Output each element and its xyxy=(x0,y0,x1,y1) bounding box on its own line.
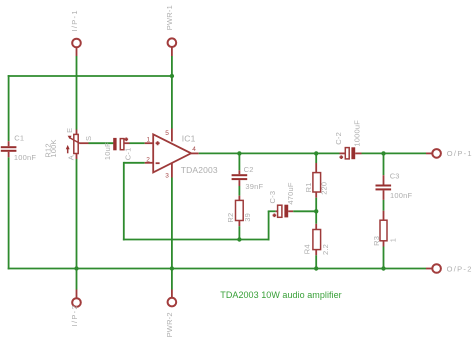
wire R2 to feedback xyxy=(238,226,240,239)
svg-text:220: 220 xyxy=(319,182,328,195)
pin PWR-1 xyxy=(165,5,176,56)
svg-text:IC1: IC1 xyxy=(182,134,196,144)
svg-text:PWR-2: PWR-2 xyxy=(165,312,174,337)
wire C-3 riser xyxy=(268,211,276,240)
wire pin3 / PWR-2 drop xyxy=(171,178,173,269)
svg-text:I/P-2: I/P-2 xyxy=(70,304,79,326)
node I/P-2 junction xyxy=(74,266,78,270)
wire R12 lower drop xyxy=(76,159,78,269)
node R2/feedback junction xyxy=(237,237,241,241)
svg-text:5: 5 xyxy=(165,130,169,137)
svg-text:1000uF: 1000uF xyxy=(353,120,362,147)
op-amp IC1 TDA2003 xyxy=(145,129,218,180)
svg-text:O/P-2: O/P-2 xyxy=(447,265,473,274)
svg-text:C-1: C-1 xyxy=(124,148,133,161)
svg-text:R3: R3 xyxy=(372,236,381,246)
pin I/P-2 xyxy=(70,269,81,327)
wire C2 to R2 xyxy=(238,186,240,196)
svg-text:3: 3 xyxy=(165,172,169,179)
node top rail / PWR-1 junction xyxy=(170,74,174,78)
pin PWR-2 xyxy=(165,269,176,338)
node C3 top junction xyxy=(381,151,385,155)
wire top rail xyxy=(8,75,172,77)
svg-text:A: A xyxy=(66,155,75,160)
wire pin2 to feedback xyxy=(124,162,145,164)
pin I/P-1 xyxy=(70,9,81,56)
capacitor C2 39nF xyxy=(232,153,264,190)
svg-text:C2: C2 xyxy=(244,165,254,174)
wire PWR-1 drop xyxy=(171,56,173,129)
node R1/R4/C-3 junction xyxy=(314,209,318,213)
resistor R4 2.2 xyxy=(303,211,331,268)
svg-text:10uF: 10uF xyxy=(103,142,112,160)
svg-text:I/P-1: I/P-1 xyxy=(70,9,79,31)
svg-text:100K: 100K xyxy=(49,139,58,157)
wire I/P-1 drop xyxy=(76,56,78,130)
svg-text:1: 1 xyxy=(389,238,398,242)
wire C-2 to O/P-1 xyxy=(362,152,427,154)
resistor R2 39 xyxy=(226,196,252,227)
capacitor C1 xyxy=(1,134,37,162)
svg-text:2: 2 xyxy=(146,156,150,163)
capacitor C-3 470uF xyxy=(268,182,295,217)
pin O/P-2 xyxy=(426,264,473,273)
wire C3 to R3 xyxy=(383,200,385,211)
svg-text:470uF: 470uF xyxy=(286,182,295,204)
capacitor C-1 10uF xyxy=(103,138,133,161)
resistor R3 1 xyxy=(372,211,398,247)
svg-text:R4: R4 xyxy=(303,244,312,254)
wire feedback bottom xyxy=(123,239,270,241)
svg-text:TDA2003: TDA2003 xyxy=(181,165,218,175)
wire C-3 to node xyxy=(293,210,316,212)
svg-text:39nF: 39nF xyxy=(245,182,263,191)
svg-text:100nF: 100nF xyxy=(14,153,36,162)
svg-text:PWR-1: PWR-1 xyxy=(165,5,174,30)
svg-text:TDA2003 10W audio amplifier: TDA2003 10W audio amplifier xyxy=(220,290,341,300)
node output/C2 junction xyxy=(237,151,241,155)
node output/R1 junction xyxy=(314,151,318,155)
node R3 ground junction xyxy=(381,266,385,270)
svg-text:1: 1 xyxy=(146,136,150,143)
wire output rail xyxy=(199,152,340,154)
node R4 ground junction xyxy=(314,266,318,270)
svg-text:C1: C1 xyxy=(14,134,24,143)
pin O/P-1 xyxy=(426,149,473,158)
svg-text:R1: R1 xyxy=(304,182,313,192)
wire R3 to ground xyxy=(383,247,385,269)
svg-text:39: 39 xyxy=(243,213,252,222)
potentiometer R12 xyxy=(44,128,94,161)
resistor R1 220 xyxy=(304,153,329,211)
capacitor C3 100nF xyxy=(376,153,413,200)
svg-text:2.2: 2.2 xyxy=(321,244,330,255)
svg-text:S: S xyxy=(84,136,93,141)
wire left rail lower xyxy=(8,157,10,269)
wire C-1 to pin1 xyxy=(124,142,153,144)
svg-text:100nF: 100nF xyxy=(390,191,412,200)
svg-text:O/P-1: O/P-1 xyxy=(447,149,473,158)
svg-text:4: 4 xyxy=(192,146,196,153)
svg-text:E: E xyxy=(65,128,74,133)
svg-text:C-2: C-2 xyxy=(334,132,343,145)
wire bottom rail xyxy=(8,268,426,270)
capacitor C-2 1000uF xyxy=(334,120,362,159)
wire wiper to C-1 xyxy=(79,142,113,144)
wire left rail upper xyxy=(8,75,10,141)
svg-text:R2: R2 xyxy=(226,213,235,223)
svg-text:C-3: C-3 xyxy=(268,191,277,204)
node pin3 ground junction xyxy=(170,266,174,270)
wire feedback left leg xyxy=(123,162,125,241)
svg-text:C3: C3 xyxy=(390,172,400,181)
title text xyxy=(220,290,341,300)
